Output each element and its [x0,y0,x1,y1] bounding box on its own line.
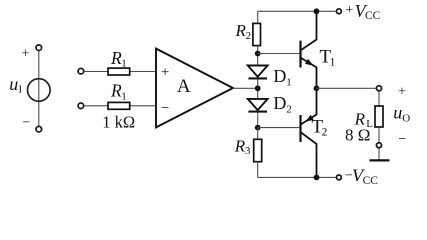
terminal bottom of source [36,126,42,132]
node B1 junction dot [255,51,261,57]
wire bottom rail -Vcc [258,176,336,178]
input terminal + (to op-amp +) [78,68,84,74]
wire source vertical [38,51,40,127]
resistor R1 (bottom) [108,102,130,109]
T1 base bar [299,41,301,68]
svg-text:−: − [22,116,30,131]
svg-text:D: D [273,93,286,113]
diode D2 [248,99,268,112]
terminal +Vcc [336,9,341,14]
resistor RL [375,106,383,127]
svg-text:+: + [398,84,406,99]
T2 base bar [299,115,301,142]
ground [370,159,390,161]
svg-text:O: O [402,112,410,124]
node top rail junction dot [314,8,320,14]
svg-text:2: 2 [322,127,328,139]
svg-text:8 Ω: 8 Ω [345,125,370,144]
svg-text:I: I [19,84,23,96]
wire node B2 to T2 base [258,127,300,129]
svg-text:+: + [345,3,353,18]
svg-text:R: R [234,136,246,155]
svg-text:1: 1 [121,58,127,70]
svg-text:3: 3 [245,145,251,157]
wire node B1 to T1 base [258,53,300,55]
op-amp U A [156,49,233,128]
node bottom rail junction dot [314,175,320,181]
wire R1 to op-amp + [130,71,156,73]
wire R1 to op-amp - [130,105,156,107]
resistor R2 [253,23,261,45]
svg-text:D: D [273,66,286,86]
wire input- to R1 [84,105,108,107]
svg-text:2: 2 [246,30,252,42]
T2 emitter lead [301,88,317,124]
wire top rail +Vcc [258,10,336,12]
node M junction dot (op-amp out, D1/D2) [255,85,261,91]
T2 collector lead [301,132,317,177]
svg-text:−: − [398,132,406,147]
wire output to load [317,87,377,89]
resistor R3 [254,139,262,161]
source u_I circle [28,79,51,102]
T1 collector lead [301,11,317,50]
wire R2 to node B1 [257,45,259,53]
terminal output top [376,86,381,91]
wire node B2 to R3 [257,128,259,140]
svg-text:1: 1 [330,56,336,68]
terminal -Vcc [336,175,341,180]
wire terminal to RL [378,91,380,106]
svg-text:R: R [110,48,122,68]
T1 emitter arrow (NPN, outward) [305,59,314,66]
svg-text:1: 1 [286,76,292,88]
wire op-amp output [233,87,258,89]
svg-text:2: 2 [286,103,292,115]
svg-text:−: − [161,100,169,116]
svg-text:A: A [177,76,191,97]
node output junction dot [314,85,320,91]
svg-text:R: R [110,81,122,101]
transistor Q T2 (PNP) [301,88,317,177]
transistor Q T1 (NPN) [301,11,317,88]
svg-text:1 kΩ: 1 kΩ [102,113,135,132]
svg-text:1: 1 [121,90,127,102]
input terminal - (to op-amp -) [78,103,84,109]
wire input+ to R1 [84,71,108,73]
svg-text:u: u [393,103,402,123]
svg-text:u: u [9,74,18,94]
diode D1 [248,66,268,79]
wire R3 to bottom rail [257,162,259,178]
terminal output bottom [376,143,381,148]
svg-text:CC: CC [363,175,379,187]
T1 emitter lead [301,58,317,88]
T2 emitter arrow (PNP, toward base) [305,115,313,122]
terminal top of source [36,45,42,51]
wire RL to bottom terminal [378,127,380,142]
svg-text:CC: CC [365,10,381,22]
svg-text:+: + [161,64,169,80]
svg-text:+: + [22,47,30,62]
wire terminal to ground [378,148,380,160]
resistor R1 (top) [108,68,130,75]
wire R2 column from top rail [257,11,259,23]
wire diode column [257,54,259,128]
node B2 junction dot [255,125,261,131]
